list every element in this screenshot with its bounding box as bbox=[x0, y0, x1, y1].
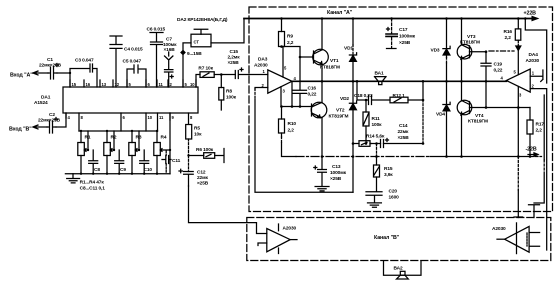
resistor R12 1 bbox=[390, 93, 423, 103]
wire DA4 pin2 to right edge column bbox=[530, 89, 547, 250]
capacitor C13 1000мк x 25В bbox=[314, 157, 347, 191]
wire DA4 pin5 bbox=[517, 51, 519, 75]
capacitor C7 100мк x 16В bbox=[163, 37, 177, 88]
svg-text:0,22: 0,22 bbox=[308, 92, 317, 98]
wire dashed drop to rail bbox=[376, 144, 378, 157]
svg-text:А2030: А2030 bbox=[283, 226, 297, 232]
wire DA3 pin3 bbox=[280, 87, 282, 107]
svg-text:22мк: 22мк bbox=[197, 175, 209, 181]
wire DA3 pin5 bbox=[282, 47, 284, 78]
svg-text:2,2: 2,2 bbox=[288, 128, 295, 134]
wire C2 to DA1 bottom pin 4 bbox=[56, 113, 66, 127]
svg-text:100к: 100к bbox=[226, 95, 237, 101]
svg-text:Вход "В": Вход "В" bbox=[9, 127, 32, 133]
svg-text:А2030: А2030 bbox=[526, 58, 540, 64]
wire ground bus under pots bbox=[65, 173, 170, 175]
wire C1 to DA1 pin 15 bbox=[57, 73, 70, 87]
svg-text:DA3: DA3 bbox=[258, 57, 268, 63]
svg-text:C8...C11 0,1: C8...C11 0,1 bbox=[80, 186, 106, 192]
svg-text:VT3: VT3 bbox=[467, 34, 476, 40]
node values note R1..R4 C8..C11 bbox=[80, 180, 106, 192]
wire right edge inner column bbox=[543, 95, 545, 160]
svg-text:R4: R4 bbox=[161, 135, 167, 141]
svg-text:А2030: А2030 bbox=[492, 226, 506, 232]
op-amp U DA1 A1524 box bbox=[34, 87, 198, 113]
svg-text:Канал "А": Канал "А" bbox=[327, 10, 353, 16]
svg-text:C3 0.047: C3 0.047 bbox=[75, 58, 94, 64]
junction dots left section bbox=[80, 130, 190, 175]
svg-text:×16В: ×16В bbox=[164, 47, 176, 53]
wire VT2 collector to bus bbox=[321, 81, 323, 102]
wire DA2 input from +22V rail bbox=[211, 19, 244, 43]
wire feedback row bbox=[371, 143, 423, 145]
channel A dashed box bbox=[249, 7, 553, 212]
input terminal Вход А bbox=[10, 71, 48, 79]
wire DA4 pin3 to base row and rail bbox=[517, 87, 519, 157]
svg-text:DA2 КР142ЕН8А(Б,Г,Д): DA2 КР142ЕН8А(Б,Г,Д) bbox=[177, 17, 228, 23]
svg-text:C5 0.047: C5 0.047 bbox=[123, 59, 142, 65]
svg-text:R14 5,6к: R14 5,6к bbox=[366, 134, 385, 140]
wire R9 to VT1 base bbox=[282, 47, 314, 58]
svg-text:СТ: СТ bbox=[194, 40, 200, 45]
svg-text:ВА1: ВА1 bbox=[375, 71, 384, 77]
wire DA2 output to DA1 supply pin with 9..15V node bbox=[181, 43, 202, 87]
resistor R15 3.9k bbox=[374, 157, 394, 179]
wire C19 node to base row bbox=[485, 81, 487, 107]
DA1 top pin stubs bbox=[70, 80, 196, 87]
svg-text:C1: C1 bbox=[47, 57, 53, 63]
capacitor C3 0.047 bbox=[70, 58, 97, 88]
svg-text:12: 12 bbox=[115, 82, 120, 87]
svg-text:R1...R4 47к: R1...R4 47к bbox=[80, 180, 105, 186]
wire channel B left output stub bbox=[290, 239, 297, 241]
pin numbers top row bbox=[72, 82, 196, 87]
wire VT3 emitter to bus bbox=[461, 59, 463, 82]
wire DA4 pin1 with terminal bar bbox=[530, 70, 543, 82]
transistor Q VT3 KT818GM bbox=[457, 34, 480, 59]
svg-text:А2030: А2030 bbox=[254, 63, 268, 69]
svg-text:R15: R15 bbox=[384, 166, 393, 172]
resistor R5 10k bbox=[186, 125, 202, 156]
capacitor C18 0.22 bbox=[354, 81, 390, 104]
svg-text:9...15В: 9...15В bbox=[187, 51, 202, 57]
wire DA3 output down to row bbox=[291, 81, 293, 106]
resistor R2 (pot 47k) bbox=[104, 131, 117, 174]
capacitor C20 1600 bbox=[366, 177, 399, 207]
svg-text:2,2: 2,2 bbox=[287, 40, 294, 46]
capacitor C12 22мк x 25В bbox=[179, 156, 209, 187]
wire VT4 emitter to rail bbox=[461, 115, 463, 157]
resistor R3 (pot 47k) bbox=[129, 131, 142, 174]
svg-text:Канал "В": Канал "В" bbox=[374, 235, 400, 241]
svg-text:R16: R16 bbox=[504, 29, 513, 35]
svg-text:C14: C14 bbox=[399, 123, 408, 129]
svg-text:DA1: DA1 bbox=[41, 95, 51, 101]
svg-text:×25В: ×25В bbox=[197, 181, 209, 187]
capacitor C9 bbox=[115, 150, 127, 174]
capacitor C16 0.22 bbox=[293, 57, 317, 107]
capacitor C15 2.2мк 25В bbox=[228, 49, 268, 79]
svg-text:VD1: VD1 bbox=[344, 46, 353, 52]
svg-text:16: 16 bbox=[86, 82, 91, 87]
op-amp U channel B right A2030 bbox=[492, 223, 540, 254]
voltage regulator U DA2 KR142EN8 bbox=[177, 17, 228, 47]
svg-text:DA4: DA4 bbox=[529, 52, 539, 58]
wire output bus bbox=[292, 80, 506, 82]
wire row DA3 pin3/R10 bbox=[281, 106, 312, 108]
svg-text:C7: C7 bbox=[166, 37, 172, 43]
svg-text:×25В: ×25В bbox=[399, 40, 411, 46]
ground bbox=[67, 174, 80, 183]
svg-text:22мк×25В: 22мк×25В bbox=[39, 63, 62, 69]
svg-text:VT1: VT1 bbox=[330, 58, 339, 64]
svg-text:Вход "А": Вход "А" bbox=[10, 73, 33, 79]
DA1 bottom pin stubs bbox=[66, 113, 189, 131]
svg-text:15: 15 bbox=[72, 82, 77, 87]
resistor R6 100k bbox=[189, 147, 225, 163]
resistor R10 2.2 bbox=[279, 107, 297, 157]
svg-text:10: 10 bbox=[190, 82, 195, 87]
svg-text:100мк: 100мк bbox=[163, 42, 177, 48]
svg-text:R12 1: R12 1 bbox=[393, 93, 406, 99]
svg-text:VD4: VD4 bbox=[436, 112, 445, 118]
svg-text:10к: 10к bbox=[194, 132, 202, 138]
svg-text:C16: C16 bbox=[308, 86, 317, 92]
svg-text:2,2мк: 2,2мк bbox=[228, 55, 241, 61]
wire column to bottom loop bbox=[352, 144, 354, 193]
wire VT3 base to C19 node bbox=[470, 51, 487, 53]
wire negative rail (dash-dot) bbox=[296, 156, 430, 158]
wire VT4 collector to bus bbox=[461, 81, 463, 100]
capacitor C4 0.015 bbox=[110, 36, 143, 87]
wire +22V feed to channel B bbox=[525, 19, 546, 84]
capacitor C17 1000мк x 25В bbox=[386, 19, 416, 49]
zener VD2 bbox=[340, 81, 357, 143]
capacitor C14 22мк x 25В bbox=[381, 123, 410, 148]
svg-text:+22В: +22В bbox=[524, 11, 537, 17]
op-amp U DA4 A2030 bbox=[501, 52, 540, 98]
svg-text:R8: R8 bbox=[226, 89, 232, 95]
capacitor C2 22мк x 25В bbox=[38, 112, 61, 133]
op-amp U channel B left A2030 bbox=[258, 224, 296, 254]
svg-text:×25В: ×25В bbox=[330, 176, 342, 182]
resistor R8 100k bbox=[219, 75, 237, 111]
svg-text:0,22: 0,22 bbox=[494, 68, 503, 74]
capacitor C10 bbox=[140, 150, 153, 174]
svg-text:×25В: ×25В bbox=[398, 135, 410, 141]
capacitor C11 bbox=[162, 151, 181, 174]
svg-text:R9: R9 bbox=[287, 34, 293, 40]
svg-text:C13: C13 bbox=[332, 164, 341, 170]
pin numbers bottom row bbox=[68, 115, 194, 120]
svg-text:22мк×25В: 22мк×25В bbox=[38, 118, 61, 124]
svg-text:C15: C15 bbox=[230, 49, 239, 55]
op-amp U DA3 A2030 bbox=[254, 57, 297, 94]
svg-text:VD2: VD2 bbox=[340, 96, 349, 102]
svg-text:1600: 1600 bbox=[389, 195, 400, 201]
svg-text:C11: C11 bbox=[172, 158, 181, 164]
svg-text:1000мк: 1000мк bbox=[399, 34, 416, 40]
svg-text:3,9к: 3,9к bbox=[384, 172, 393, 178]
svg-text:100к: 100к bbox=[372, 122, 383, 128]
svg-text:R17: R17 bbox=[536, 122, 545, 128]
svg-text:А1524: А1524 bbox=[34, 100, 48, 106]
svg-text:VD3: VD3 bbox=[431, 48, 440, 54]
svg-text:КТ818ГМ: КТ818ГМ bbox=[460, 40, 480, 46]
speaker BA2 bbox=[384, 261, 422, 279]
resistor R11 100k trimmer bbox=[363, 100, 382, 144]
svg-text:R5: R5 bbox=[194, 126, 200, 132]
capacitor C5 0.047 bbox=[123, 59, 147, 88]
wire dash link to R16 node bbox=[489, 50, 514, 52]
svg-text:C9: C9 bbox=[120, 167, 126, 173]
junction dots channel A bbox=[69, 17, 532, 158]
svg-text:КТ819ГМ: КТ819ГМ bbox=[468, 119, 488, 125]
wire pot feed bus bbox=[79, 130, 158, 132]
svg-text:C4 0.015: C4 0.015 bbox=[124, 47, 143, 53]
svg-text:C19: C19 bbox=[494, 62, 503, 68]
wire R12 node column bbox=[422, 81, 424, 100]
svg-text:C10: C10 bbox=[144, 167, 153, 173]
wire VT4 base row to R17 bbox=[470, 107, 531, 109]
wire DA3 pin2 feedback loop bbox=[255, 88, 268, 90]
svg-text:C17: C17 bbox=[399, 27, 408, 33]
wire VT1 collector bbox=[321, 19, 323, 50]
wire VT3 collector bbox=[461, 19, 463, 45]
wire preamp output to channel B input bbox=[189, 186, 267, 234]
wire VT2 emitter down bbox=[321, 118, 323, 157]
resistor R16 2.2 bbox=[504, 19, 521, 51]
svg-text:R10: R10 bbox=[288, 121, 297, 127]
wire channel B right output stub bbox=[497, 238, 505, 240]
capacitor C19 0.22 bbox=[481, 52, 503, 82]
transistor Q VT4 KT819GM bbox=[457, 100, 488, 124]
capacitor C1 22мк x 25В bbox=[39, 57, 62, 79]
svg-text:ВА2: ВА2 bbox=[394, 266, 403, 272]
transistor Q VT2 KT819GM bbox=[311, 102, 348, 119]
resistor R7 10k bbox=[196, 66, 235, 88]
resistor R14 5.6k bbox=[353, 134, 385, 147]
zener VD3 bbox=[431, 19, 451, 82]
zener VD1 bbox=[344, 19, 357, 82]
speaker BA1 bbox=[375, 71, 387, 85]
channel B dashed box bbox=[247, 218, 551, 261]
capacitor C6 0.015 bbox=[147, 27, 166, 88]
svg-text:КТ818ГМ: КТ818ГМ bbox=[320, 65, 340, 71]
svg-text:2,2: 2,2 bbox=[536, 128, 543, 134]
zener VD4 bbox=[436, 81, 450, 156]
resistor R4 (pot 47k) bbox=[154, 113, 170, 174]
svg-text:2,2: 2,2 bbox=[505, 35, 512, 41]
svg-text:C12: C12 bbox=[197, 170, 206, 176]
wire VT1 emitter to bus bbox=[321, 64, 323, 81]
resistor R9 2.2 bbox=[279, 19, 294, 48]
node -22V label bbox=[526, 147, 539, 157]
svg-text:VT2: VT2 bbox=[336, 108, 345, 114]
svg-text:VT4: VT4 bbox=[475, 113, 484, 119]
input terminal Вход B bbox=[9, 125, 47, 133]
svg-text:22мк: 22мк bbox=[398, 129, 410, 135]
svg-text:-22В: -22В bbox=[526, 147, 537, 153]
transistor Q VT1 KT818GM bbox=[313, 49, 340, 70]
svg-text:C8: C8 bbox=[94, 167, 100, 173]
svg-text:13: 13 bbox=[102, 82, 107, 87]
resistor R1 (pot 47k) bbox=[78, 131, 91, 174]
svg-text:C2: C2 bbox=[49, 112, 55, 118]
svg-text:R7 10к: R7 10к bbox=[198, 66, 213, 72]
svg-text:1000мк: 1000мк bbox=[330, 170, 347, 176]
svg-text:R11: R11 bbox=[372, 116, 381, 122]
svg-text:КТ819ГМ: КТ819ГМ bbox=[329, 114, 349, 120]
svg-text:C20: C20 bbox=[389, 189, 398, 195]
svg-text:×25В: ×25В bbox=[228, 60, 240, 66]
svg-text:10: 10 bbox=[148, 115, 153, 120]
capacitor C8 bbox=[89, 150, 101, 174]
resistor R17 2.2 bbox=[527, 108, 544, 157]
power rail +22V bbox=[244, 11, 538, 21]
svg-text:C6 0.015: C6 0.015 bbox=[147, 27, 166, 33]
